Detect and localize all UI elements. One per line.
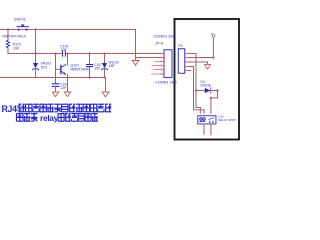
relay bottom pins	[204, 124, 211, 133]
wire: top rail y=29.5	[0, 29, 136, 31]
svg-text:5V1: 5V1	[41, 65, 47, 69]
ground under C106	[52, 92, 58, 97]
ground under emitter	[64, 92, 70, 97]
junction dot (89.6,77.5)	[89, 77, 91, 79]
svg-text:15P: 15P	[95, 67, 102, 71]
CONN1 pin stubs rows 3-6	[152, 62, 162, 75]
resistor R107	[6, 40, 9, 48]
junction dot (104.4,77.5)	[104, 77, 106, 79]
wire: vertical x=135.7 top rail to row2	[135, 30, 137, 58]
svg-text:10P: 10P	[61, 48, 68, 52]
wire: C107 column x=89.6	[89, 54, 91, 65]
TP power symbol	[210, 33, 216, 39]
svg-text:P2: P2	[179, 44, 183, 48]
wire: P2 row3 y=60.5	[188, 61, 208, 63]
wire: collector lead x=67	[67, 54, 69, 66]
wire: x=210.5 down to relay	[210, 98, 212, 112]
svg-text:relay: relay	[40, 113, 59, 123]
capacitor C106	[52, 83, 59, 85]
junction dot (212.2,57)	[212, 57, 214, 59]
caption line2 CJK pseudo-glyphs	[17, 114, 98, 122]
transistor Q101	[61, 65, 66, 75]
P2 pin arrows	[185, 52, 188, 71]
wire: P2 row4 y=64	[188, 66, 194, 68]
wire: base column x=55	[55, 54, 57, 84]
wire: left rail x=8	[7, 30, 9, 41]
svg-text:SW101: SW101	[14, 18, 26, 22]
wire: TP column x=212.2	[212, 38, 214, 58]
capacitor C109 series plates	[62, 51, 64, 56]
CONN1 pin arrows	[161, 52, 164, 75]
junction dot (217.9,91.3)	[217, 90, 219, 92]
junction dot (196.4,91.3)	[195, 90, 197, 92]
diode D4	[205, 88, 211, 93]
connector P2 rectangle	[178, 49, 185, 74]
wire: base wire y=69.3	[56, 68, 61, 70]
wire: bottom rail y=77.5	[0, 77, 106, 79]
wire: emitter lead x=67	[67, 74, 69, 92]
wire: P2 row1 y=54	[188, 53, 196, 55]
junction dot (210.5,100.7)	[210, 97, 212, 99]
wire: row2 y=57.5 from corner to CONN1	[136, 57, 165, 59]
svg-text:CONN1 2B8: CONN1 2B8	[154, 34, 176, 39]
relay bottom pin arrows	[203, 133, 212, 136]
ground at (104.8,92)	[102, 92, 109, 97]
connector CONN1 rectangle	[164, 50, 172, 78]
junction dot at (8,29.5)	[7, 29, 9, 31]
junction dot (89.6,53.5)	[89, 53, 91, 55]
wire: P2 row2 y=57 to TP column	[188, 57, 213, 59]
svg-text:RELAY SPDT: RELAY SPDT	[218, 118, 236, 122]
ground under corner x=135.7	[135, 58, 137, 61]
wire: vertical x=196.4 row1 to relay	[195, 54, 197, 108]
wire: main rail y=53.5 (gap at C109)	[8, 53, 62, 55]
diode D4 wire y=91.3	[196, 90, 218, 92]
black enclosure rectangle	[175, 19, 240, 140]
relay top pin arrows	[199, 112, 212, 115]
junction dot (67,53.5)	[67, 53, 69, 55]
wire: VR103 column x=104.4	[104, 54, 106, 64]
zener diode VR103	[101, 63, 107, 70]
junction dot at (35,29.5)	[35, 29, 37, 31]
relay contacts	[209, 118, 214, 123]
junction dot (55,53.5)	[55, 53, 57, 55]
svg-text:JP-H: JP-H	[156, 42, 164, 46]
svg-text:22P: 22P	[61, 86, 68, 90]
svg-text:10K: 10K	[13, 47, 20, 51]
wire: D4 right corner to x=210.5	[217, 91, 219, 98]
zener diode VR102	[32, 63, 38, 70]
svg-text:MMBT3904: MMBT3904	[71, 68, 89, 72]
junction dot (35,53.5)	[35, 53, 37, 55]
junction dot (104.4,53.5)	[104, 53, 106, 55]
relay coil	[199, 118, 205, 122]
svg-text:15P: 15P	[109, 64, 116, 68]
ground at TP column	[204, 65, 210, 69]
svg-text:ON/OFFTALK: ON/OFFTALK	[2, 34, 27, 39]
svg-text:DIODE: DIODE	[201, 83, 212, 87]
switch SW101	[16, 24, 28, 30]
wire: vertical x=198.6 row4 to relay	[193, 67, 195, 110]
capacitor C107	[87, 64, 93, 66]
svg-text:CONN1 2B3: CONN1 2B3	[155, 80, 177, 85]
relay LS1 rectangle	[198, 116, 216, 124]
wire: ground drop x=104.8	[105, 78, 107, 92]
wire: zener VR102 column x=35	[35, 30, 37, 64]
caption line1 CJK pseudo-glyphs	[18, 104, 111, 112]
